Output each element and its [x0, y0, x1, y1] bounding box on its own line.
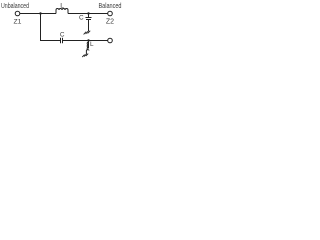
wire [40, 14, 42, 42]
terminal J3 (balanced output, bottom) [108, 38, 113, 43]
wire [68, 13, 108, 15]
wire [88, 14, 90, 18]
capacitor C (series, bottom) [60, 38, 62, 43]
capacitor C (shunt, to ground) [86, 17, 92, 19]
wire [88, 20, 90, 32]
svg-text:C: C [60, 31, 65, 38]
wire [40, 40, 60, 42]
ground (below shunt C) [84, 31, 91, 35]
svg-text:L: L [90, 41, 94, 48]
wire [63, 40, 108, 42]
node B junction dot [87, 12, 89, 14]
svg-text:Unbalanced: Unbalanced [1, 1, 29, 10]
node D junction dot [87, 39, 89, 41]
node A junction dot [39, 12, 41, 14]
terminal J1 (unbalanced input) [15, 11, 20, 16]
svg-text:L: L [60, 3, 64, 10]
terminal J2 (balanced output, top) [108, 11, 113, 16]
inductor L (series, top) [56, 9, 68, 14]
inductor L (shunt, to ground) [88, 41, 90, 49]
ground (below shunt L) [82, 54, 88, 58]
svg-text:C: C [79, 15, 84, 22]
svg-text:Balanced: Balanced [99, 1, 122, 10]
svg-text:Z1: Z1 [14, 19, 22, 26]
wire [20, 13, 56, 15]
svg-text:Z2: Z2 [106, 19, 114, 26]
